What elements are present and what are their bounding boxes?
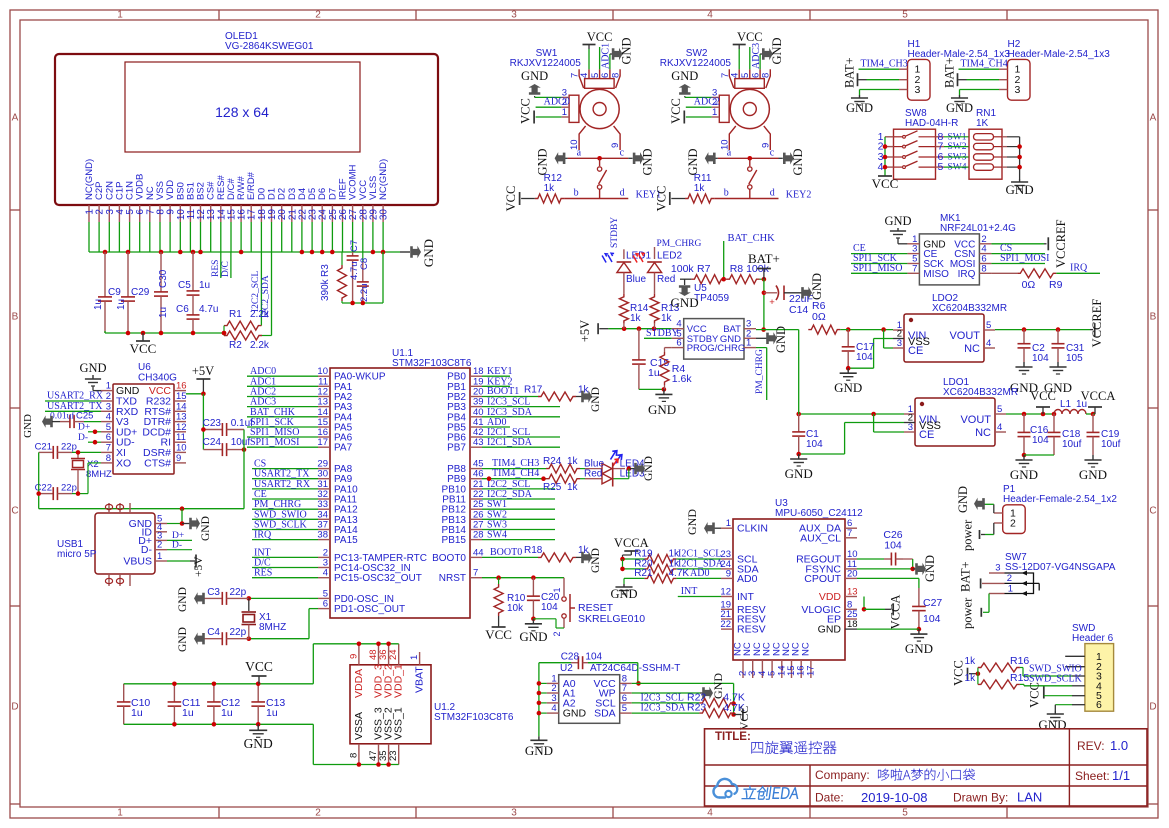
svg-text:3: 3 [915,84,921,96]
svg-text:104: 104 [1032,353,1049,364]
svg-text:2: 2 [1010,518,1016,530]
svg-text:VDD: VDD [819,591,842,603]
capacitor C10 1u [117,684,151,725]
svg-text:C29: C29 [131,287,150,298]
svg-text:C6: C6 [176,304,189,315]
svg-text:VG-2864KSWEG01: VG-2864KSWEG01 [225,41,314,52]
svg-text:GND: GND [563,708,587,720]
svg-text:INT: INT [681,586,698,597]
capacitor C11 1u [168,684,201,725]
svg-text:4: 4 [997,422,1002,433]
svg-text:XC6204B332MR: XC6204B332MR [943,387,1018,398]
svg-text:C25: C25 [76,411,93,422]
svg-text:VCC: VCC [737,30,763,44]
ground GND (H1 pin3) [846,90,899,116]
svg-text:TP4059: TP4059 [694,293,729,304]
IC U6 CH340G [101,362,187,474]
svg-text:Header-Female-2.54_1x2: Header-Female-2.54_1x2 [1003,494,1117,505]
power flag VCC (R15/R16) [951,660,980,686]
svg-text:VCC: VCC [587,30,613,44]
svg-text:3: 3 [511,10,517,21]
svg-text:VDD_1: VDD_1 [393,664,405,698]
svg-text:d: d [620,188,625,199]
net TIM4_CH3 (H1 pin1) [859,59,908,70]
svg-text:CH340G: CH340G [138,373,177,384]
svg-text:REV:: REV: [1077,739,1105,753]
capacitor C13 1u [251,684,285,725]
svg-text:NC: NC [800,642,811,656]
capacitor C12 1u [207,684,240,725]
svg-text:GND: GND [686,148,700,175]
ground GND (U3/C27) [905,629,933,656]
svg-text:SS-12D07-VG4NSGAPA: SS-12D07-VG4NSGAPA [1005,562,1116,573]
capacitor C5 1u [178,252,210,307]
wire VSS to C17 (LDO2) [848,339,893,369]
ground GND (LED3/LED4) [614,456,656,481]
svg-text:STDBY: STDBY [610,217,620,248]
svg-text:NC(GND): NC(GND) [378,159,389,200]
capacitor C21 22p [35,442,101,459]
net CS (MK1 pin4) [991,243,1045,254]
svg-text:RES: RES [254,568,272,579]
svg-text:a: a [727,148,732,159]
svg-text:C8: C8 [359,258,370,270]
net D+ (USB1) [167,531,192,541]
svg-text:D-: D- [172,541,182,551]
svg-text:GND: GND [834,380,862,395]
svg-text:C14: C14 [789,304,808,316]
svg-text:1k: 1k [965,656,977,667]
power flag BAT+ (SW7 pin2) [959,561,981,592]
svg-text:D: D [1149,702,1156,713]
svg-text:2: 2 [157,540,162,551]
svg-text:b: b [574,188,579,199]
svg-text:NRF24L01+2.4G: NRF24L01+2.4G [940,223,1016,234]
svg-text:C: C [11,506,18,517]
ground GND (P1 pin1) [956,486,994,513]
svg-text:8MHZ: 8MHZ [259,622,286,633]
svg-text:CE: CE [919,429,934,441]
ground GND (U3 CLKIN) [685,509,721,535]
wire C9/C29 to VCC rail [104,331,106,333]
svg-text:BAT+: BAT+ [843,57,857,88]
svg-text:3: 3 [908,422,913,433]
svg-text:17: 17 [805,665,816,676]
svg-text:1: 1 [117,10,123,21]
svg-text:10uf: 10uf [231,437,251,448]
svg-text:4: 4 [323,568,328,579]
svg-text:9: 9 [176,453,181,464]
svg-text:VCC: VCC [654,186,668,212]
power flag VCC (OLED caps) [130,333,157,356]
svg-text:VBUS: VBUS [123,556,152,568]
svg-text:XO: XO [116,457,131,469]
svg-text:R16: R16 [1010,655,1029,667]
svg-text:7: 7 [847,528,852,539]
svg-text:Drawn By:: Drawn By: [953,791,1008,805]
REV field [1077,738,1128,753]
svg-text:1u: 1u [131,707,143,719]
svg-text:TITLE:: TITLE: [715,731,751,743]
svg-text:100k: 100k [671,263,695,275]
svg-text:5: 5 [902,808,908,819]
power flag power (P1 pin2) [961,519,994,551]
ground GND (U2 WP) [632,673,725,700]
svg-text:VCC: VCC [519,98,533,124]
svg-text:BAT+: BAT+ [748,251,780,266]
wire VDD to VLOGIC (U3) [862,597,885,612]
svg-text:STDBY: STDBY [646,328,679,339]
svg-text:VCC: VCC [485,627,512,642]
power flag VCC (SW1 key) [504,186,535,212]
svg-text:VCCREF: VCCREF [1054,219,1068,268]
ground GND (SW1 a) [536,148,568,175]
net D/C (OLED pin15) [221,252,231,278]
capacitor C14 22uF [764,286,813,317]
svg-text:6: 6 [676,338,681,349]
power flag BAT+ (H2 pin2) [943,57,1000,88]
svg-text:10uf: 10uf [1062,439,1082,450]
svg-text:5: 5 [902,10,908,21]
net TIM4_CH4 (H2 pin1) [959,59,1008,70]
nets ADC0-ADC3 BAT_CHK SPI1 (U1.1 left) [247,366,318,448]
connector USB1 micro 5P [57,503,167,586]
capacitor C6 4.7u [176,304,218,333]
svg-text:PA15: PA15 [334,535,358,546]
title block frame [705,729,1148,806]
svg-text:C21: C21 [35,442,52,453]
svg-text:4: 4 [986,338,991,349]
net I2C3_SDA + resistor R23 4.7K [632,702,745,718]
svg-text:Blue: Blue [626,274,646,285]
svg-text:Company:: Company: [815,768,870,782]
svg-text:8: 8 [761,73,772,78]
svg-text:VCC: VCC [669,98,683,124]
U1.1 left pins [317,366,427,615]
svg-text:17: 17 [317,437,328,448]
net SPI1_SCK (MK1 pin5) [851,253,907,264]
svg-text:10k: 10k [507,603,524,614]
svg-text:4: 4 [707,10,713,21]
power flag BAT+ (H1 pin2) [843,57,900,88]
svg-text:2: 2 [552,631,562,636]
svg-text:GND: GND [648,402,676,417]
svg-text:SPI1_MOSI: SPI1_MOSI [1000,253,1049,264]
regulator LDO2 XC6204B332MR [893,293,1007,362]
svg-text:VCCA: VCCA [888,595,902,630]
svg-text:D-: D- [78,433,88,443]
svg-text:D: D [11,702,18,713]
svg-text:GND: GND [1038,717,1066,732]
svg-text:GND: GND [643,456,655,481]
svg-text:IRQ: IRQ [1070,263,1088,274]
svg-text:+: + [769,297,775,308]
svg-text:BAT+: BAT+ [943,57,957,88]
svg-text:a: a [577,148,582,159]
svg-text:104: 104 [541,602,558,613]
svg-text:38: 38 [317,530,328,541]
svg-text:GND: GND [774,326,788,353]
svg-text:4: 4 [579,73,590,78]
resistor R12 1k (SW1) [535,173,629,203]
svg-text:0.01uf: 0.01uf [50,411,75,422]
wire SW8 left rail to VCC [883,137,888,176]
power flag VCCA (U3 VDD) [885,595,902,630]
svg-text:BOOT0: BOOT0 [490,547,522,558]
svg-text:4.7u: 4.7u [199,304,218,315]
svg-text:power: power [961,597,975,629]
svg-text:GND: GND [884,214,911,228]
OLED1 outline [55,54,438,205]
svg-text:1: 1 [726,518,731,529]
svg-text:7: 7 [106,442,111,453]
power flag +5V (U6 VCC) [192,364,214,394]
ground GND (U2) [525,736,553,758]
svg-text:INT: INT [737,591,755,603]
svg-text:C9: C9 [108,287,121,298]
power flag VCC (SW8) [872,176,899,191]
svg-text:13: 13 [847,587,858,598]
svg-text:1u: 1u [266,707,278,719]
svg-text:1: 1 [106,381,111,392]
wire CE tie (LDO2) [884,330,893,348]
svg-text:GND: GND [177,587,189,612]
svg-text:1: 1 [552,587,562,592]
net USART2_RX (U6 pin2) [45,391,104,402]
resistor R1 2.2k [224,309,270,330]
svg-text:VCCA: VCCA [1081,389,1116,403]
svg-text:STM32F103C8T6: STM32F103C8T6 [434,712,514,723]
wire +5V rail (U5) [608,326,671,331]
switch contacts a-c (SW2) [718,148,779,199]
svg-text:VCC: VCC [130,341,157,356]
svg-text:R1: R1 [229,309,242,320]
resistor R7 100k [671,263,725,284]
svg-text:C7: C7 [349,240,360,252]
svg-text:AD0: AD0 [737,573,758,585]
svg-text:2: 2 [315,808,321,819]
svg-text:VCC: VCC [737,706,751,731]
svg-text:SDA: SDA [594,708,616,720]
svg-text:GND: GND [590,387,602,412]
net INT (U3) [678,586,721,597]
net ADC1 (SW1 pin5) [600,43,612,69]
date field [815,790,1042,806]
capacitor C17 104 [842,330,875,371]
ground GND (C1) [785,454,813,481]
svg-text:VDDA: VDDA [353,669,365,698]
capacitor C18 10uf [1024,414,1082,455]
U1.1 right pins [432,366,483,584]
svg-text:c: c [620,148,625,159]
ground GND (SW2 pin3) [671,69,711,97]
svg-text:SKRELGE010: SKRELGE010 [578,613,645,625]
svg-text:B: B [1150,312,1157,323]
power flag VCC (SW1 pin4) [583,30,613,69]
svg-text:GND: GND [671,295,699,310]
svg-text:5: 5 [622,703,627,714]
resistor R2 2.2k [222,326,272,351]
capacitor C9 1u [93,252,121,333]
capacitor C27 104 [912,588,942,631]
IC U5 TP4059 [672,283,756,359]
net I2C2_SCL (OLED pin18) [251,252,261,326]
switch SW7 SS-12D07-VG4NSGAPA [982,552,1116,596]
svg-text:C24: C24 [203,437,222,448]
svg-text:C28: C28 [561,652,580,663]
svg-text:GND: GND [905,641,933,656]
ground GND (SW1 pin6) [610,37,634,69]
capacitor C29 1u [116,252,150,333]
svg-text:D-: D- [141,544,153,556]
ground GND (C14) [801,273,824,300]
resistor R21 4.7K [624,568,721,584]
svg-text:ADC2: ADC2 [694,97,720,108]
svg-text:GND: GND [421,239,436,267]
power flag VCC (SWD pin5) [1027,682,1072,708]
svg-text:VCC: VCC [504,186,518,212]
svg-text:1: 1 [117,808,123,819]
svg-text:BAT_CHK: BAT_CHK [728,233,776,244]
wire U2 left rail [537,663,571,737]
svg-text:BOOT0: BOOT0 [432,553,466,564]
svg-text:GND: GND [641,148,655,175]
svg-text:Sheet:: Sheet: [1075,769,1110,783]
OLED1 display area 128 x 64 [125,62,360,152]
net TIM4_CH3 + resistor R24 1k [482,456,580,473]
ground GND (C19) [1079,455,1107,482]
resistor R15 1k [965,672,1072,689]
svg-text:TIM4_CH4: TIM4_CH4 [492,468,539,479]
svg-text:PC15-OSC32_OUT: PC15-OSC32_OUT [334,573,422,584]
svg-text:1k: 1k [567,482,579,493]
IC U3 MPU-6050_C24112 [720,498,863,678]
ground GND (U5 pin2) [756,326,788,353]
svg-text:SW4: SW4 [487,530,507,541]
capacitor C16 104 [1018,414,1050,457]
net SPI1_MOSI (MK1 pin6) [991,253,1049,264]
net ADC2 (SW2 pin2) [686,97,720,108]
svg-text:GND: GND [525,743,553,758]
ground GND (H2 pin3) [946,90,999,116]
svg-text:A: A [1150,113,1157,124]
svg-text:NC: NC [975,427,991,439]
capacitor C22 22p [35,463,101,500]
VCC rail below OLED caps [105,331,226,336]
svg-text:16: 16 [176,381,187,392]
capacitor C24 10uf [203,437,251,456]
resistor R10 10k [494,578,526,616]
svg-text:GND: GND [1010,467,1038,482]
ground GND (C17) [834,368,862,395]
svg-text:c: c [770,148,775,159]
svg-text:R8: R8 [730,263,744,275]
svg-text:PB15: PB15 [442,535,467,546]
ground GND (C25) [22,414,60,438]
ground GND (SW1 c) [628,148,654,175]
module MK1 NRF24L01+2.4G [907,213,1016,285]
svg-text:3: 3 [995,563,1000,574]
svg-text:+5V: +5V [193,556,205,577]
resistor R11 1k (SW2) [685,173,779,203]
svg-text:AT24C64D-SSHM-T: AT24C64D-SSHM-T [590,663,680,674]
ground GND (C31) [1044,362,1072,395]
svg-text:1u: 1u [182,707,194,719]
wire VOUT to VCCREF (LDO2) [995,327,1090,332]
svg-text:1k: 1k [694,183,706,194]
svg-text:4.7K: 4.7K [669,568,690,579]
net I2C2_SDA (OLED pin19) [261,252,272,336]
svg-text:VCC: VCC [1027,682,1041,708]
ground GND (USB1 pin5) [167,516,212,541]
svg-text:GND: GND [79,361,106,375]
ground GND (R17) [576,387,602,412]
IC U2 AT24C64D-SSHM-T [547,663,681,723]
net TIM4_CH4 + resistor R25 1k [482,468,580,493]
net BOOT1 + resistor R17 1k [482,385,590,402]
svg-text:IRQ: IRQ [254,530,272,541]
svg-text:1.0: 1.0 [1110,738,1128,753]
svg-text:C23: C23 [203,418,222,429]
svg-text:C27: C27 [923,597,942,609]
ground GND (RN1) [1006,179,1034,197]
wire RN1 right rail to GND [1017,137,1022,179]
power flag VCC (R10) [485,616,512,642]
svg-text:GND: GND [946,101,973,115]
svg-text:Red: Red [657,274,675,285]
capacitor C26 104 [857,529,913,569]
ground GND (R21) [610,584,637,601]
ground GND (SW2 pin6) [760,37,784,69]
ground GND (SWD pin6) [1038,705,1072,732]
resistor R20 1k [620,558,724,573]
svg-text:1: 1 [712,107,717,118]
svg-text:TIM4_CH3: TIM4_CH3 [861,59,908,70]
IC U1.1 STM32F103C8T6 outline [330,348,472,618]
svg-text:R2: R2 [229,340,242,351]
svg-text:+5V: +5V [192,364,214,378]
svg-text:SPI1_MISO: SPI1_MISO [853,263,902,274]
connector P1 Header-Female-2.54_1x2 [994,484,1117,534]
capacitor C3 22p [200,587,249,605]
wire VSS to C1 (LDO1) [799,423,904,455]
ground GND (C3) [177,587,205,612]
svg-text:IRQ: IRQ [958,269,976,280]
capacitor C8 2.2u [357,252,370,303]
svg-text:GND: GND [610,587,637,601]
svg-text:1u: 1u [199,280,210,291]
svg-text:BAT+: BAT+ [959,561,973,592]
svg-text:8: 8 [106,453,111,464]
net D- (U6 pin6) [78,433,101,445]
svg-text:128 x 64: 128 x 64 [215,104,269,120]
svg-text:R17: R17 [524,385,543,396]
net PM_CHRG (U5 pin1) [755,348,767,400]
power flag VCC (SW1 pin1) [519,98,562,124]
capacitor C23 0.1uf [201,418,253,436]
IC U1.2 STM32F103C8T6 power pins [349,644,514,765]
svg-text:2.2k: 2.2k [250,309,270,320]
capacitor C20 104 [527,578,560,621]
svg-text:GND: GND [671,69,698,83]
svg-text:GND: GND [1079,467,1107,482]
svg-text:LED2: LED2 [657,251,682,262]
svg-text:STM32F103C8T6: STM32F103C8T6 [392,358,472,369]
ground GND (U6 pin1) [79,361,106,391]
power flag VCC (SW2 pin1) [669,98,712,124]
svg-text:AD0: AD0 [690,568,709,579]
LED4 blue [580,451,645,474]
